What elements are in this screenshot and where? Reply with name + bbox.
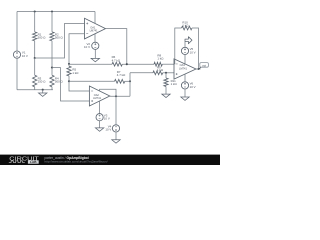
svg-text:10 V: 10 V bbox=[84, 45, 90, 49]
ground G1 on bridge rail bbox=[42, 90, 44, 93]
svg-text:10 V: 10 V bbox=[190, 85, 196, 89]
top supply rail bbox=[17, 11, 95, 13]
wire node B to OA2 + input bbox=[52, 68, 89, 101]
svg-text:10 V: 10 V bbox=[22, 54, 28, 58]
OA2 output wire bbox=[110, 95, 130, 97]
svg-text:4.7 kΩ: 4.7 kΩ bbox=[117, 73, 126, 77]
wire R8 to OA3 - input bbox=[162, 63, 174, 65]
voltage source V5 10V bbox=[181, 47, 188, 54]
svg-text:10 V: 10 V bbox=[104, 117, 110, 121]
ground G5 under R11 bbox=[162, 94, 170, 97]
wire output node down to V4 bbox=[115, 96, 117, 125]
resistor R1 500 bbox=[33, 32, 37, 41]
node A dot left bridge midpoint bbox=[34, 57, 36, 59]
wire V4 to ground G4 bbox=[115, 132, 117, 140]
ground G4 under V4 bbox=[112, 140, 120, 143]
resistor R11 1k to ground bbox=[164, 78, 168, 87]
svg-text:10 V: 10 V bbox=[105, 128, 111, 132]
node Y dot OA2 inverting node bbox=[68, 80, 70, 82]
wire node A to R3 bbox=[34, 58, 36, 75]
node X dot OA1 inverting node bbox=[68, 63, 70, 65]
wire tap to R11 bbox=[165, 73, 167, 78]
bottom ground rail bbox=[17, 89, 53, 91]
svg-text:500 Ω: 500 Ω bbox=[55, 36, 64, 40]
voltage source V3 10V bbox=[96, 114, 103, 121]
ground G3 under V3 bbox=[95, 128, 103, 131]
svg-text:out: out bbox=[202, 63, 206, 67]
voltage source V4 10V flipped bbox=[112, 125, 119, 132]
OA1 V- supply stub to V2 bbox=[94, 34, 96, 42]
left rail upper segment to V1 bbox=[16, 12, 18, 52]
junction dot rail-R1 bbox=[34, 10, 36, 12]
junction dot ground rail bbox=[42, 89, 44, 91]
svg-text:LM741: LM741 bbox=[93, 96, 101, 100]
svg-text:LM741: LM741 bbox=[90, 29, 98, 33]
svg-text:1 kΩ: 1 kΩ bbox=[72, 71, 79, 75]
svg-text:http://www.circuitlab.com/circ: http://www.circuitlab.com/circuit/7mj2ar… bbox=[45, 160, 108, 164]
footer bar bbox=[0, 155, 220, 165]
svg-text:10 V: 10 V bbox=[190, 50, 196, 54]
resistor R8 1k bbox=[154, 62, 162, 66]
op-amp OA2 LM741 bbox=[89, 86, 109, 106]
junction dot R7 right bbox=[129, 80, 131, 82]
wire V2 to ground G2 bbox=[94, 49, 96, 58]
voltage source V6 10V bbox=[181, 82, 188, 89]
voltage source V1 10V bbox=[13, 51, 20, 58]
OA3 output wire bbox=[196, 68, 201, 70]
svg-text:500 Ω: 500 Ω bbox=[55, 80, 64, 84]
OA2 V- stub to V3 bbox=[99, 101, 101, 114]
svg-text:4.7 kΩ: 4.7 kΩ bbox=[112, 58, 121, 62]
resistor R10 1k OA3 feedback bbox=[182, 26, 193, 30]
wire rail to R2 bbox=[51, 12, 53, 32]
logo waveform bbox=[9, 161, 25, 163]
OA2 V+ stub tied to output node bbox=[100, 89, 116, 96]
junction dot R11 tap bbox=[165, 72, 167, 74]
node B dot right bridge midpoint bbox=[51, 67, 53, 69]
feedback riser OA2 out to R9 net bbox=[129, 73, 131, 97]
resistor R5 1k gain bbox=[67, 66, 71, 76]
net flag out bbox=[199, 67, 202, 69]
ground G2 under V2 bbox=[91, 58, 99, 61]
svg-text:500 Ω: 500 Ω bbox=[38, 36, 47, 40]
wire rail to R1 bbox=[34, 12, 36, 32]
junction dot R10 left bbox=[174, 63, 176, 65]
wire V5 to flag bbox=[184, 41, 186, 47]
op-amp OA1 LM741 bbox=[85, 18, 106, 39]
wire node A to OA1 + input bbox=[35, 23, 85, 58]
wire node Y to R7 bbox=[69, 80, 115, 82]
feedback loop wire right-down bbox=[192, 28, 199, 69]
wire R11 to ground G5 bbox=[165, 87, 167, 95]
logo LAB box bbox=[28, 160, 39, 163]
left rail lower segment V1 to ground rail bbox=[16, 58, 18, 89]
svg-text:LAB: LAB bbox=[30, 160, 37, 164]
junction dot OA1 out on net bbox=[126, 63, 128, 65]
net flag arrow on V5 bbox=[185, 37, 192, 44]
wire R9 to OA3 + input bbox=[163, 72, 174, 74]
feedback loop wire up-left bbox=[175, 28, 182, 64]
wire R6 to R8 bbox=[122, 63, 154, 65]
junction dot feedback output bbox=[197, 68, 199, 70]
OA1 output wire down to feedback net bbox=[106, 29, 127, 65]
voltage source V2 10V bbox=[92, 42, 99, 49]
svg-text:1 kΩ: 1 kΩ bbox=[157, 68, 164, 72]
ground G6 under V6 bbox=[181, 97, 189, 100]
OA1 V+ supply stub to top rail bbox=[94, 12, 96, 24]
svg-text:1 kΩ: 1 kΩ bbox=[157, 56, 164, 60]
op-amp OA3 LM741 bbox=[174, 59, 196, 79]
wire node Y to OA2 - input bbox=[69, 81, 89, 91]
OA3 V- stub to V6 bbox=[184, 74, 186, 82]
resistor R3 250 bbox=[33, 75, 37, 87]
wire OA1 - input to node X bbox=[69, 34, 85, 64]
junction dot rail-R2 bbox=[51, 10, 53, 12]
wire node X to R6 bbox=[69, 63, 112, 65]
resistor R2 500 bbox=[50, 32, 54, 41]
wire riser to R9 bbox=[130, 72, 153, 74]
wire V6 to ground G6 bbox=[184, 89, 186, 97]
resistor R9 1k bbox=[153, 71, 163, 75]
wire node X to R5 bbox=[68, 64, 70, 66]
junction dot OA2 out V4 tie bbox=[115, 95, 117, 97]
wire R5 to node Y bbox=[68, 76, 70, 81]
svg-text:1 kΩ: 1 kΩ bbox=[182, 24, 189, 28]
wire R2 to node B bbox=[51, 41, 53, 68]
svg-text:LM741: LM741 bbox=[179, 66, 187, 70]
svg-text:1 kΩ: 1 kΩ bbox=[171, 82, 178, 86]
resistor R7 4.7k OA2 feedback bbox=[115, 79, 125, 83]
resistor R4 500 bbox=[50, 75, 54, 87]
wire R1 to node A bbox=[34, 41, 36, 58]
wire V3 to ground G3 bbox=[99, 121, 101, 128]
wire node B to R4 bbox=[51, 68, 53, 76]
wire R7 to feedback riser bbox=[125, 80, 130, 82]
wire R3 to ground rail bbox=[34, 87, 36, 90]
wire R4 to ground rail bbox=[51, 87, 53, 90]
OA3 V+ stub to V5 bbox=[184, 54, 186, 64]
resistor R6 4.7k OA1 feedback bbox=[112, 62, 122, 66]
svg-text:250 Ω: 250 Ω bbox=[38, 80, 47, 84]
